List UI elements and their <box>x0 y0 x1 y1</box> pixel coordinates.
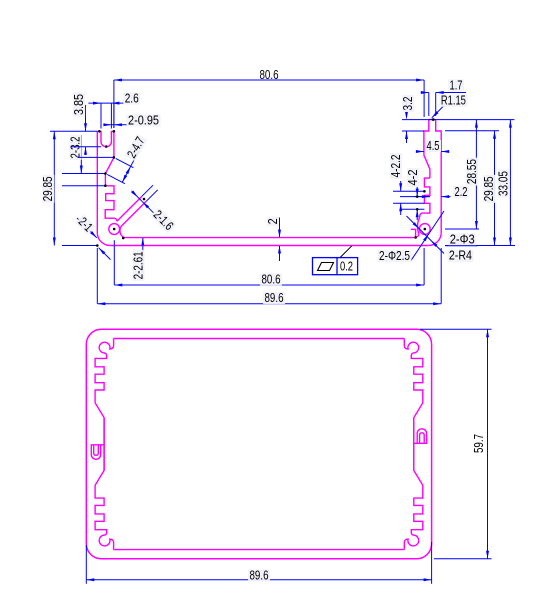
svg-text:1.7: 1.7 <box>450 78 463 92</box>
left bottom corner fillet R4 <box>97 233 110 245</box>
dim 2-4.7 label <box>124 134 147 162</box>
extension line hole center right <box>445 228 479 230</box>
left wall segment below top teeth <box>103 418 105 445</box>
dim 2.6 label <box>123 92 140 106</box>
svg-text:2-Φ2.5: 2-Φ2.5 <box>379 249 410 263</box>
svg-text:2.6: 2.6 <box>125 92 139 106</box>
dim 2.2 label <box>453 185 469 199</box>
dimension point dots top view <box>96 118 435 247</box>
dim 28.55 label <box>465 158 479 186</box>
dim 2-1 leader with arrows <box>77 218 111 260</box>
dim 2-R4 label <box>447 249 473 263</box>
corner screw boss top-right <box>404 339 423 446</box>
svg-text:2-3.2: 2-3.2 <box>68 137 82 159</box>
dim 2.6 line with arrows <box>88 102 124 105</box>
flatness tolerance leader <box>330 246 352 258</box>
right wall outer edge with top nub <box>424 120 441 234</box>
left diagonal PCB support rib <box>117 197 146 238</box>
dim 89.6 bottom label <box>248 569 270 583</box>
svg-text:89.6: 89.6 <box>250 569 269 583</box>
dim 89.6 bottom extension lines <box>86 542 431 584</box>
extension line nub top level <box>402 119 514 121</box>
dim 59.7 line <box>486 329 489 559</box>
dim 59.7 extension lines <box>420 329 492 559</box>
extension line wall top <box>50 130 97 132</box>
dim 89.6 bottom line <box>86 578 431 581</box>
dim 89.6 extension lines <box>97 248 441 304</box>
dim 29.85 right line <box>493 131 496 246</box>
svg-text:3.85: 3.85 <box>72 94 86 115</box>
dim 28.55 line <box>475 120 478 229</box>
dim 2-3.2 label <box>68 135 82 160</box>
corner screw boss bottom-right <box>404 443 423 550</box>
right screw hole 2-2.5 circle <box>419 224 430 235</box>
svg-text:2-1: 2-1 <box>76 215 96 235</box>
dim 2.2 line with arrows <box>414 195 451 198</box>
dim 2-3.2 vertical arrows <box>80 135 83 174</box>
svg-text:80.6: 80.6 <box>260 68 279 82</box>
dim 3.2 label <box>401 95 415 112</box>
extension line nub base <box>402 130 424 132</box>
dim 1.7 line with arrows <box>421 91 466 94</box>
dim 80.6 top line <box>114 79 424 82</box>
dim 2-phi2.5 leader <box>411 211 445 261</box>
svg-text:2-2.61: 2-2.61 <box>131 251 145 279</box>
dim 29.85 right label <box>482 175 496 203</box>
corner screw boss bottom-left <box>95 443 114 550</box>
dim R1.15 label <box>439 94 467 108</box>
svg-text:33.05: 33.05 <box>497 171 511 196</box>
extension line tooth d <box>400 208 424 210</box>
flatness value 0.2 <box>340 260 353 274</box>
dim 3.85 vertical line with arrows <box>84 105 87 155</box>
svg-text:2-1.6: 2-1.6 <box>151 208 176 233</box>
corner screw boss top-left (hook and teeth) <box>95 339 114 446</box>
right boss step to web <box>411 229 416 237</box>
dim 1.7 label <box>448 78 464 92</box>
enclosure outer rounded rectangle <box>86 329 431 559</box>
left wall outer edge and top with screw slot <box>97 131 114 233</box>
dim 80.6 top extension lines <box>114 80 424 128</box>
extension line bottom right <box>445 245 515 247</box>
dim 29.85 left line <box>53 131 56 245</box>
dim 2-2.61 leader line <box>141 238 144 280</box>
dim 80.6 top label <box>260 68 279 82</box>
dim 2 web arrows <box>278 218 281 262</box>
svg-text:R1.15: R1.15 <box>441 94 466 108</box>
dim 2 label <box>266 217 280 226</box>
dim 1.7 extension lines <box>429 93 436 117</box>
svg-text:59.7: 59.7 <box>472 434 486 453</box>
extension line teeth top <box>62 185 105 187</box>
dim 33.05 line <box>509 120 512 246</box>
right bottom corner fillet R4 <box>428 233 441 245</box>
extension line tooth a <box>393 190 424 192</box>
dim 59.7 label <box>472 434 486 453</box>
svg-text:29.85: 29.85 <box>482 176 496 201</box>
svg-text:2.2: 2.2 <box>455 185 468 199</box>
bottom web outer line <box>110 245 428 247</box>
dim 2-1 label <box>75 214 96 235</box>
mid-left screw channel clip <box>91 445 104 471</box>
dim 4-2 arrows <box>416 186 419 220</box>
extension line chamfer bottom <box>62 173 105 175</box>
slot extension lines <box>101 103 114 128</box>
dim 80.6 bottom extension line right <box>423 248 425 285</box>
dim 2-phi3 label with underline <box>446 232 478 246</box>
right wall serrated screw-boss teeth <box>416 178 430 238</box>
svg-text:4-2: 4-2 <box>406 170 420 186</box>
dim 2-4.7 line with arrows <box>122 151 138 182</box>
right wall segment below clip <box>413 443 415 470</box>
mid-right screw channel clip <box>414 418 427 444</box>
svg-text:2-0.95: 2-0.95 <box>128 113 159 127</box>
extension line tooth b <box>400 196 430 198</box>
dim 2-1.6 leader with arrows <box>131 191 168 228</box>
bottom web inner line <box>125 237 416 239</box>
dim 80.6 bottom label <box>260 272 282 286</box>
dim 89.6 line <box>97 302 441 305</box>
extension line wall bottom <box>62 245 97 247</box>
enclosure inner bottom wall line <box>114 549 405 551</box>
dim 2-0.95 line with arrows <box>103 123 127 126</box>
dim 4.5 arrows <box>416 150 449 153</box>
svg-text:4-2.2: 4-2.2 <box>389 155 403 178</box>
flatness tolerance frame <box>313 258 358 275</box>
dim 2-2.61 extension line <box>113 240 115 285</box>
extension line nub base right <box>445 130 499 132</box>
dim 2-2.61 label <box>131 250 145 281</box>
rib edge extension lines <box>142 185 158 201</box>
svg-text:3.2: 3.2 <box>401 97 415 111</box>
flatness symbol parallelogram <box>318 263 334 271</box>
dim 3.2 vertical arrows <box>405 99 408 143</box>
svg-text:2: 2 <box>266 218 280 224</box>
svg-text:80.6: 80.6 <box>262 272 281 286</box>
svg-text:28.55: 28.55 <box>465 159 479 184</box>
svg-text:2-R4: 2-R4 <box>449 249 472 263</box>
dim 2-phi2.5 label <box>378 249 412 263</box>
svg-text:4.5: 4.5 <box>427 139 440 153</box>
enclosure inner top wall line <box>114 338 405 340</box>
dim 2-1.6 label <box>150 207 176 233</box>
svg-text:29.85: 29.85 <box>41 176 55 201</box>
dim 2-4.7 extension lines <box>107 158 133 183</box>
svg-text:89.6: 89.6 <box>265 291 284 305</box>
left wall serrated screw-boss teeth <box>105 186 117 221</box>
dim 89.6 label <box>263 291 285 305</box>
dim 80.6 bottom line <box>114 284 424 287</box>
dim 29.85 left label <box>41 175 55 203</box>
dim 4.5 label <box>425 139 441 153</box>
left screw hole 2-2.5 circle <box>109 224 120 235</box>
extension line chamfer top <box>78 156 114 158</box>
extension line slot bottom <box>71 146 102 148</box>
svg-text:0.2: 0.2 <box>340 260 353 274</box>
dim 4-2.2 arrows <box>399 181 402 215</box>
dim 4-2 label <box>406 168 420 187</box>
dim 2-0.95 label <box>127 113 161 127</box>
svg-text:2-Φ3: 2-Φ3 <box>450 232 475 246</box>
dim 2-R4 leader <box>407 216 445 254</box>
dim 4-2.2 label <box>389 153 403 179</box>
dim 3.85 label <box>72 93 86 117</box>
dim 33.05 label <box>497 170 511 198</box>
dim R1.15 leader <box>432 106 444 118</box>
extension line tooth c <box>393 202 424 204</box>
